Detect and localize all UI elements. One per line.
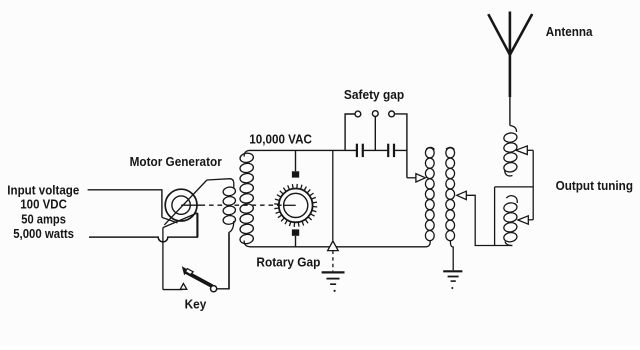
svg-text:50 amps: 50 amps [21,212,66,227]
svg-text:Output tuning: Output tuning [556,178,633,193]
svg-text:10,000 VAC: 10,000 VAC [249,131,312,146]
svg-text:5,000 watts: 5,000 watts [13,226,74,241]
svg-text:Safety gap: Safety gap [344,87,404,102]
svg-text:100 VDC: 100 VDC [20,197,67,212]
svg-text:Antenna: Antenna [546,24,593,39]
svg-text:Input voltage: Input voltage [7,182,79,197]
svg-text:Key: Key [185,297,207,312]
svg-text:Motor Generator: Motor Generator [130,154,222,169]
svg-text:Rotary Gap: Rotary Gap [256,254,320,269]
